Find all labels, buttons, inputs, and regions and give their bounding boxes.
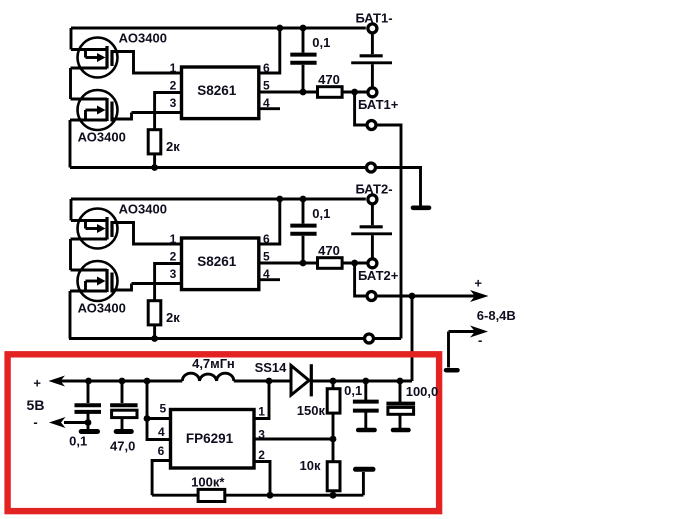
svg-text:БАТ2+: БАТ2+	[358, 268, 399, 283]
svg-text:5: 5	[263, 250, 270, 264]
svg-text:6: 6	[158, 444, 165, 458]
svg-text:47,0: 47,0	[110, 439, 135, 454]
svg-text:FP6291: FP6291	[186, 431, 234, 446]
svg-text:0,1: 0,1	[312, 206, 330, 221]
svg-text:2: 2	[258, 448, 265, 462]
svg-text:150к: 150к	[297, 403, 326, 418]
svg-text:4: 4	[263, 267, 270, 281]
svg-text:5: 5	[159, 401, 166, 415]
svg-text:100,0: 100,0	[406, 384, 439, 399]
svg-text:S8261: S8261	[197, 254, 237, 269]
svg-text:+: +	[474, 276, 482, 291]
svg-text:4: 4	[158, 425, 165, 439]
svg-text:1: 1	[258, 405, 265, 419]
svg-text:6-8,4В: 6-8,4В	[477, 308, 516, 323]
svg-text:2к: 2к	[166, 310, 180, 325]
svg-text:0,1: 0,1	[69, 433, 87, 448]
svg-text:2к: 2к	[166, 139, 180, 154]
svg-text:1: 1	[170, 232, 177, 246]
svg-text:SS14: SS14	[255, 360, 288, 375]
svg-text:3: 3	[170, 267, 177, 281]
svg-text:-: -	[33, 414, 37, 429]
svg-text:1: 1	[170, 61, 177, 75]
svg-text:470: 470	[318, 72, 340, 87]
svg-text:АО3400: АО3400	[119, 201, 167, 216]
svg-text:S8261: S8261	[197, 83, 237, 98]
svg-text:0,1: 0,1	[344, 383, 362, 398]
svg-text:6: 6	[263, 232, 270, 246]
svg-text:АО3400: АО3400	[119, 30, 167, 45]
svg-text:10к: 10к	[300, 458, 321, 473]
svg-text:+: +	[33, 375, 41, 390]
svg-text:АО3400: АО3400	[78, 301, 126, 316]
svg-text:БАТ2-: БАТ2-	[355, 182, 392, 197]
svg-text:5: 5	[263, 79, 270, 93]
svg-text:6: 6	[263, 61, 270, 75]
svg-text:2: 2	[170, 250, 177, 264]
svg-text:АО3400: АО3400	[78, 130, 126, 145]
svg-text:БАТ1-: БАТ1-	[355, 11, 392, 26]
svg-text:0,1: 0,1	[312, 35, 330, 50]
svg-text:БАТ1+: БАТ1+	[358, 97, 399, 112]
svg-text:2: 2	[170, 79, 177, 93]
svg-text:3: 3	[170, 96, 177, 110]
svg-text:4,7мГн: 4,7мГн	[192, 356, 235, 371]
svg-text:100к*: 100к*	[191, 475, 225, 490]
svg-text:3: 3	[258, 428, 265, 442]
svg-text:470: 470	[318, 243, 340, 258]
svg-text:-: -	[478, 333, 482, 348]
svg-text:5В: 5В	[27, 397, 45, 413]
svg-text:4: 4	[263, 96, 270, 110]
